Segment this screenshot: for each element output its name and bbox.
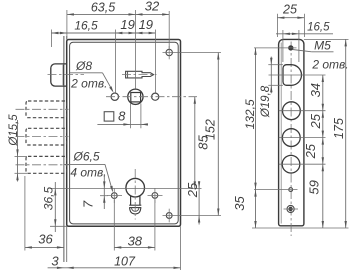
bottom right hole horizontal centerline <box>163 215 222 217</box>
label d8 2 holes shelf <box>70 72 103 74</box>
label M5 leader <box>293 50 312 52</box>
square 8 dimension line <box>97 123 147 125</box>
svg-text:М5: М5 <box>314 39 331 53</box>
svg-text:132,5: 132,5 <box>243 99 257 129</box>
svg-text:Ø8: Ø8 <box>75 59 92 73</box>
euro cylinder keyhole circle <box>126 178 145 197</box>
deadbolt pin 3 hidden outline <box>26 156 67 173</box>
deadbolt pin 1 centerline <box>16 108 69 110</box>
svg-text:34: 34 <box>308 83 323 97</box>
square symbol <box>104 112 114 121</box>
svg-text:3: 3 <box>51 254 59 269</box>
deadbolt hole 2 centerline <box>279 137 326 139</box>
handle spindle hub circle <box>128 89 143 104</box>
extension lines plate width <box>276 14 278 37</box>
svg-text:59: 59 <box>307 180 322 194</box>
stop pin lever <box>126 71 154 78</box>
keyhole horizontal centerline / extension <box>50 187 202 189</box>
small pilot hole <box>289 188 293 192</box>
faceplate front view outline <box>279 39 304 225</box>
faceplate screw hole M5 bottom countersunk <box>287 205 294 212</box>
label d8 2 holes leader <box>103 73 113 91</box>
svg-text:19: 19 <box>139 17 153 32</box>
extension lines latch hole width <box>282 30 284 62</box>
extension lines d6,5 holes down <box>113 200 115 251</box>
svg-text:Ø6,5: Ø6,5 <box>72 150 99 164</box>
extension line hole column right <box>168 11 170 49</box>
svg-text:7: 7 <box>81 200 96 208</box>
svg-text:2 отв.: 2 отв. <box>311 58 348 72</box>
extension line plate bottom long <box>252 227 349 229</box>
svg-text:4 отв.: 4 отв. <box>70 166 106 180</box>
d6.5 left hole vertical centerline <box>113 189 115 203</box>
d6.5 right hole horizontal centerline <box>148 194 163 196</box>
extension line hole d8 left vertical <box>114 30 116 93</box>
deadbolt pin 2 centerline <box>16 136 69 138</box>
extension line spindle vertical <box>135 10 137 89</box>
svg-text:32: 32 <box>145 0 160 14</box>
dimension 85 line <box>194 97 196 189</box>
dimension d15,5 line <box>17 120 19 182</box>
dimension d19,8 line <box>270 57 272 94</box>
svg-text:175: 175 <box>332 118 346 139</box>
dimension d15,5 extensions <box>15 155 28 157</box>
keyhole cam dome outer <box>130 208 141 214</box>
case bottom edge left extension <box>50 225 67 227</box>
lock case outer outline <box>67 40 181 227</box>
bottom screw hole horizontal centerline <box>284 208 299 210</box>
M5 top hole centerline <box>254 47 297 49</box>
keyhole stem right side <box>139 195 141 205</box>
stop pin end cap line <box>127 71 129 78</box>
deadbolt hole 1 centerline <box>279 110 326 112</box>
svg-text:25: 25 <box>185 182 200 198</box>
svg-text:16,5: 16,5 <box>74 19 98 33</box>
svg-text:Ø19,8: Ø19,8 <box>260 85 272 118</box>
dimension 3 and 107 line <box>48 267 181 269</box>
bottom screw hole center dot <box>289 207 292 210</box>
deadbolt pin 3 centerline <box>16 164 69 166</box>
svg-text:63,5: 63,5 <box>91 1 115 15</box>
dimension 16,5 19 19 line <box>51 32 155 34</box>
latch hole in faceplate <box>283 65 302 86</box>
handle spindle square hole 8x8 <box>131 93 141 102</box>
cylinder screw hole d6.5 left <box>111 193 117 199</box>
deadbolt hole 3 d19,8 <box>282 155 300 173</box>
lock case cover inner outline <box>70 42 179 224</box>
label M5 shelf <box>312 51 334 53</box>
latch bolt <box>51 64 67 86</box>
pilot hole centerline <box>254 189 298 191</box>
svg-text:25: 25 <box>303 143 318 159</box>
stop pin centerline <box>122 74 157 76</box>
extension line case right down <box>180 226 182 270</box>
case mounting hole bottom right <box>166 213 172 219</box>
svg-text:25: 25 <box>282 3 297 17</box>
faceplate edge strip (3mm) main view <box>63 36 65 262</box>
spindle row horizontal centerline <box>106 96 197 98</box>
svg-text:36,5: 36,5 <box>42 186 56 210</box>
latch bolt head inner line <box>62 65 64 85</box>
svg-text:152: 152 <box>204 119 218 140</box>
faceplate inner bend line <box>280 43 282 224</box>
dimension 36 line <box>25 246 64 248</box>
latch centerline <box>48 74 85 76</box>
latch hole horizontal centerline <box>269 74 326 76</box>
hole d8 left <box>111 93 118 100</box>
top right hole horizontal centerline <box>163 52 222 54</box>
keyhole vertical centerline <box>134 169 136 220</box>
svg-text:19: 19 <box>120 17 134 32</box>
bottom right hole vertical centerline <box>168 209 170 223</box>
dimension 25 right of keyhole line <box>198 181 200 225</box>
extension line latch face <box>50 30 52 48</box>
deadbolt hole 3 centerline <box>279 163 326 165</box>
dimension 16,5 latch hole line <box>276 33 333 35</box>
svg-text:107: 107 <box>114 255 136 269</box>
svg-text:8: 8 <box>118 109 126 124</box>
svg-text:38: 38 <box>128 234 143 249</box>
d6.5 left hole horizontal centerline <box>107 195 122 197</box>
svg-text:2 отв.: 2 отв. <box>70 77 107 91</box>
svg-text:35: 35 <box>232 196 247 211</box>
label d6,5 leader <box>105 164 112 190</box>
svg-text:16,5: 16,5 <box>307 22 330 34</box>
keyhole cam dome inner <box>131 208 139 212</box>
dimension 7 line <box>103 174 105 209</box>
deadbolt hole 2 d19,8 <box>282 129 300 147</box>
dimension 25 plate width line <box>277 17 304 19</box>
dimension chain 34 25 25 59 line <box>322 75 324 228</box>
deadbolt pin 2 hidden outline <box>26 128 67 145</box>
svg-text:36: 36 <box>38 232 53 247</box>
keyhole stem left side <box>130 195 132 205</box>
top right hole vertical centerline <box>168 46 170 59</box>
faceplate vertical centerline <box>290 42 292 237</box>
dimension 36,5 line <box>54 182 56 232</box>
dimension 7 extension <box>100 195 108 197</box>
extension line plate top right <box>304 38 349 40</box>
svg-text:Ø15,5: Ø15,5 <box>8 114 20 147</box>
extension line case left top <box>66 10 68 40</box>
hole d8 right <box>152 93 159 100</box>
deadbolt hole 1 d19,8 <box>283 102 301 120</box>
dimension 152 line <box>217 53 219 216</box>
square 8 extension lines <box>129 104 131 129</box>
faceplate screw hole M5 top <box>289 46 293 50</box>
cylinder screw hole d6.5 right <box>152 193 158 199</box>
extension line deadbolt face <box>24 176 26 251</box>
keyhole collar lines <box>129 204 141 206</box>
extension line hole d8 right vertical <box>154 30 156 93</box>
dimension 38 line <box>114 246 155 248</box>
dimension 63,5 and 32 line <box>67 13 169 15</box>
label d6,5 4 holes shelf <box>64 163 105 165</box>
dimension 132,5 and 35 line <box>255 48 257 228</box>
svg-text:25: 25 <box>308 113 323 129</box>
d6.5 right hole vertical centerline <box>154 188 156 203</box>
dimension d19,8 extensions <box>268 64 283 66</box>
dimension 175 line <box>345 39 347 228</box>
case mounting hole top right <box>166 49 172 55</box>
deadbolt pin 1 hidden outline <box>26 101 67 118</box>
